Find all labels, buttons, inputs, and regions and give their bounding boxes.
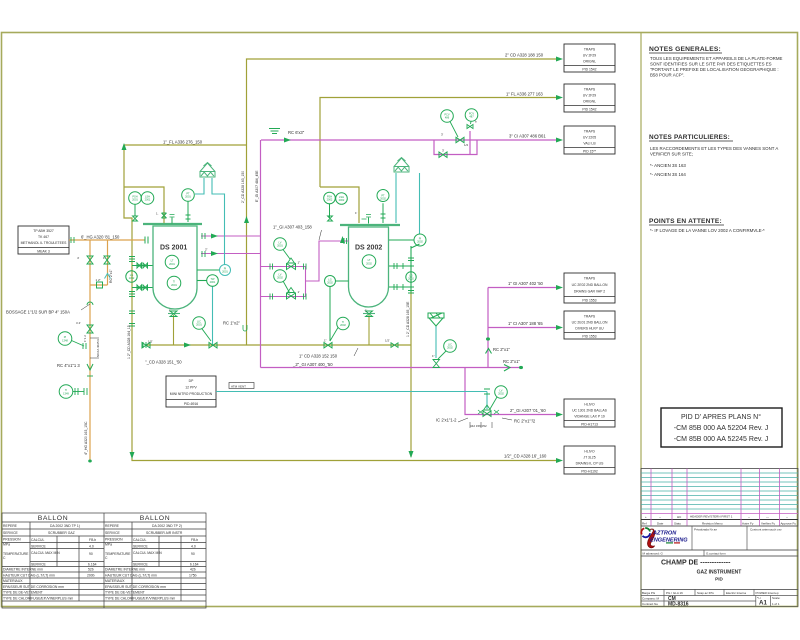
atmospheric vent header [213,286,488,409]
svg-text:1" GI A307 402 '50: 1" GI A307 402 '50 [508,281,544,286]
svg-text:42b: 42b [190,568,196,572]
svg-text:B58 POUR ACP".: B58 POUR ACP". [650,73,685,78]
svg-text:487: 487 [469,115,474,119]
svg-text:DRAINS GAR VAP 2: DRAINS GAR VAP 2 [574,290,605,294]
svg-text:TYPE DE CALORIFUGE/EP./VINERPL: TYPE DE CALORIFUGE/EP./VINERPLUS mm [3,597,73,601]
svg-text:DIAMETRE INTERNE mm: DIAMETRE INTERNE mm [105,568,145,572]
svg-text:SONT IDENTIFIES SUR LE SITE PA: SONT IDENTIFIES SUR LE SITE PAR DES ETIQ… [650,62,772,67]
svg-text:M advanced: G: M advanced: G [643,552,664,556]
off-page connector flag 1 [564,44,615,72]
up arrow on FL A336 276 [122,143,127,150]
instrument bubble LT in DS2002 [362,255,376,269]
svg-text:---: --- [766,515,769,519]
flange marks at manifold rungs [270,264,306,270]
instrument bubble PSH DS2002 a [324,192,336,218]
svg-text:2002: 2002 [327,198,333,202]
instrument bubble LV on vent drop [490,386,507,409]
instrument bubble PI right of DS2002 [414,234,426,246]
level gauge bridle circle on rail x132 [126,271,137,282]
nozzle ticks on DS2001 flange [171,218,173,224]
off-page connector flag 5 [564,311,615,339]
svg-text:DA 2002 3ND TP 2): DA 2002 3ND TP 2) [152,524,182,528]
valve on HG riser 4in [87,256,93,264]
revision table grid [641,469,798,527]
svg-text:--: -- [748,515,750,519]
svg-text:PID 1542: PID 1542 [582,68,596,72]
svg-text:RC 2"x1": RC 2"x1" [109,268,113,283]
DS2002 right nozzle lines [389,240,420,292]
svg-text:UC 2E01 2ND BALLON: UC 2E01 2ND BALLON [572,321,608,325]
BALLON data tables [2,513,206,608]
svg-text:2002: 2002 [340,323,346,327]
svg-text:042 156 052: 042 156 052 [470,424,487,428]
bridle branch to vessel upper [132,263,153,268]
svg-text:90: 90 [191,552,195,556]
control valve on vent drop [483,411,491,416]
svg-text:HEADER REV/STERN FIRST 1: HEADER REV/STERN FIRST 1 [690,515,733,519]
instrument bubble LV2002 [274,270,290,294]
svg-text:6'_HG A320 '81_150: 6'_HG A320 '81_150 [81,235,120,240]
svg-text:Date: Date [657,522,664,526]
svg-text:NOTES PARTICULIERES:: NOTES PARTICULIERES: [649,134,730,141]
pipe RC 6x3 to flag3 [261,131,556,155]
fitting at vent drop junction [484,389,490,394]
svg-text:_2"_GI A307 400_'50: _2"_GI A307 400_'50 [292,362,333,367]
valve on drain header left [142,343,150,348]
arrow on drain header [184,343,191,348]
svg-text:1"_FL A336 276_150: 1"_FL A336 276_150 [163,140,203,145]
svg-text:PID 1553: PID 1553 [582,299,596,303]
fittings on magenta bottom run [478,410,499,414]
LV manifold between vessels [261,241,349,297]
off-page connector flag 2 [564,84,615,112]
svg-text:DIVERS HLKP UU: DIVERS HLKP UU [575,327,604,331]
svg-text:PID: PID [715,577,723,582]
svg-text:DIAMETRE INTERNE mm: DIAMETRE INTERNE mm [3,568,43,572]
svg-text:UC 1301 2ND BALLAS: UC 1301 2ND BALLAS [572,409,608,413]
off-page connector flag 6 [564,399,615,427]
svg-text:DRAINS IL CP US: DRAINS IL CP US [576,462,604,466]
flow arrow into flag1 [556,57,563,62]
svg-text:PRESSION: PRESSION [105,538,123,542]
dimension ticks on HG riser [90,338,99,358]
arrow at DS2002 inlet nozzle [340,236,345,243]
svg-text:LT: LT [368,258,371,262]
fittings on HG riser mid [87,302,93,305]
svg-text:--: -- [659,515,661,519]
svg-text:METHANOL IL TROULETEES: METHANOL IL TROULETEES [21,241,68,245]
svg-text:Barga PG: Barga PG [642,591,656,595]
svg-text:JT 3L25: JT 3L25 [583,456,595,460]
notes generales paragraph [650,56,782,78]
instrument bubble LI gauge DS2002 [406,272,416,282]
svg-text:Scale:: Scale: [772,596,781,600]
svg-text:FB.b: FB.b [191,538,198,542]
pipe HG A320 from source box [69,240,145,461]
svg-text:VERIFIER SUR SITE;: VERIFIER SUR SITE; [650,152,693,157]
svg-text:Autre Fy: Autre Fy [742,522,754,526]
svg-text:1"1 2: 1"1 2 [83,335,87,342]
svg-text:PRESSION: PRESSION [3,538,21,542]
svg-text:EPAISSEUR SUT DE CORROSION mm: EPAISSEUR SUT DE CORROSION mm [105,585,166,589]
svg-text:4.0: 4.0 [191,545,196,549]
svg-text:1 2": 1 2" [96,278,101,282]
instrument bubble PI on HG riser [58,332,86,349]
svg-text:REPERE: REPERE [105,524,120,528]
svg-text:PID 1542: PID 1542 [582,108,596,112]
svg-text:b.164: b.164 [190,563,199,567]
olive header to DS2001 instruments [124,148,132,460]
instrument bubble PI gauge right of DS2001 (teal) [220,265,231,276]
svg-text:1349: 1349 [63,391,69,395]
flange pairs on DS2001 overhead nozzles [202,233,205,257]
svg-text:Company: M: Company: M [642,597,660,601]
title block bottom rows [641,589,798,607]
svg-text:2002: 2002 [277,276,283,280]
instrument bubble PT DS2001 [182,189,195,222]
PID reference box [661,408,782,447]
svg-text:CALCUL MAX MIN: CALCUL MAX MIN [31,551,60,555]
instrument bubble PI top1 DS2001 [129,192,142,216]
svg-text:DS 2002: DS 2002 [355,245,382,252]
svg-text:TEMPERATURE: TEMPERATURE [3,552,29,556]
svg-text:90: 90 [89,552,93,556]
valve on RC6x3 bypass [439,152,447,157]
svg-text:4"_HG A320 163_15C: 4"_HG A320 163_15C [84,421,88,455]
svg-text:1'': 1'' [432,354,435,358]
instrument bubble PCV b [465,109,478,124]
small info row [641,550,798,556]
flange pair on drain header left end [143,342,146,348]
instrument bubble LIC with leader to drain valve [193,317,211,341]
svg-text:Electric Interna: Electric Interna [726,591,746,595]
off-page connector flag 4 [564,273,615,303]
logo and cartouche cells row [641,526,798,550]
svg-text:TEMPERATURE: TEMPERATURE [105,552,131,556]
svg-text:2002: 2002 [408,277,414,281]
svg-text:G.contact form: G.contact form [706,552,726,556]
svg-text:"PORTANT LE PREFIXE DE LOCALIS: "PORTANT LE PREFIXE DE LOCALISATION GEOG… [650,67,779,72]
pipe GI A307 101 to flag6 [465,368,556,415]
valve DS2002 bottom outlet [366,311,373,317]
svg-text:''_CD A328 151_'50: ''_CD A328 151_'50 [145,360,182,365]
svg-text:E'_GI A307 484_45E: E'_GI A307 484_45E [255,170,259,202]
svg-text:2" CD A328 188 150: 2" CD A328 188 150 [505,53,544,58]
svg-text:Privatizada Nr ae: Privatizada Nr ae [694,528,717,532]
svg-text:ATM VENT: ATM VENT [231,384,246,388]
svg-text:BALLON: BALLON [38,515,68,522]
svg-text:486: 486 [445,116,450,120]
svg-text:UV 2205: UV 2205 [583,136,596,140]
svg-text:2001: 2001 [210,280,216,284]
points en attente heading [649,218,724,225]
svg-text:1 2"_CD A328 164_15: 1 2"_CD A328 164_15 [127,325,131,359]
PSV 2002 relief lines [396,173,420,234]
svg-text:1/2"_CD A328 16'_160: 1/2"_CD A328 16'_160 [504,454,547,459]
svg-text:1348: 1348 [62,338,68,342]
svg-text:UV 2F29: UV 2F29 [583,54,596,58]
svg-text:TYPE DE CALORIFUGE/EP./VINERPL: TYPE DE CALORIFUGE/EP./VINERPLUS mm [105,597,175,601]
svg-text:TP ABH 3527: TP ABH 3527 [33,229,54,233]
svg-text:VIDANGE LAX P 19: VIDANGE LAX P 19 [574,415,605,419]
svg-text:POWER Intercep: POWER Intercep [756,591,779,595]
spec breaks on olive rail x132 [129,257,135,327]
svg-text:-CM 85B 000 AA 52245 Rev. J: -CM 85B 000 AA 52245 Rev. J [674,436,768,443]
down arrow at CD A328 161 corner [130,452,135,459]
flange pairs on DS2002 right stubs [394,263,403,269]
svg-text:TYPE DE DE-VETEMENT: TYPE DE DE-VETEMENT [3,591,43,595]
valve DS2001 bottom outlet [170,311,177,317]
svg-text:SERVICE: SERVICE [3,531,19,535]
svg-text:Verifies Fy: Verifies Fy [761,522,776,526]
svg-text:PID 15**: PID 15** [583,150,597,154]
instrument bubble LG left of DS2002 [325,276,349,342]
flow arrow into flag3 [556,138,563,143]
svg-text:2002: 2002 [447,346,453,350]
end dot on HG riser [88,460,92,463]
svg-text:CALCUL: CALCUL [133,538,146,542]
DS2001 bottom outlet [173,315,175,345]
svg-text:FB.b: FB.b [89,538,96,542]
svg-text:Revision Memo: Revision Memo [702,522,723,526]
svg-text:12 PPV: 12 PPV [185,386,197,390]
svg-text:PID-H1192: PID-H1192 [581,470,598,474]
svg-text:52b: 52b [88,568,94,572]
svg-text:1": 1" [324,339,327,343]
svg-text:SERVICE: SERVICE [133,563,149,567]
chevron on HG branch [105,274,111,279]
svg-text:1" FL A336 277 163: 1" FL A336 277 163 [506,92,543,97]
svg-text:TI: TI [65,388,68,392]
svg-text:2001: 2001 [185,195,191,199]
instrument bubble LSH DS2002 b [336,193,348,205]
instrument bubble TI on HG riser low [59,385,87,399]
svg-text:DS 2001: DS 2001 [160,245,187,252]
svg-text:+: + [645,515,647,519]
svg-text:TI: TI [173,279,176,283]
svg-text:b.164: b.164 [88,563,97,567]
instrument bubble LV2001 [274,238,290,259]
svg-text:2'_CD A328 163_150: 2'_CD A328 163_150 [241,171,245,203]
pipe GI A307 vertical rail [260,140,262,368]
svg-text:RC 2"x1": RC 2"x1" [503,359,520,364]
dimension marks under funnel valve [458,418,512,422]
olive header to DS2002 instruments [320,187,359,223]
svg-text:GAZ INSTRUMENT: GAZ INSTRUMENT [697,570,742,576]
svg-text:SCRUBBER AIR INSTR: SCRUBBER AIR INSTR [146,531,183,535]
reducer on HG riser [87,364,93,370]
label ATM VENT boxed [229,383,254,389]
fitting on instrument stem x164 [162,213,167,218]
svg-text:2001: 2001 [169,262,175,266]
nozzle ticks on DS2002 flange [368,218,370,224]
pipe CD A328 163 vertical below [246,145,248,345]
svg-text:4.0: 4.0 [89,545,94,549]
svg-text:VALI LB: VALI LB [583,142,596,146]
instrument bubble LIC with leader to funnel valve [438,340,456,359]
svg-text:1342: 1342 [129,276,135,280]
svg-text:200b: 200b [87,574,95,578]
instrument bubble TW right of DS2001 (green) [207,275,219,287]
svg-text:LES RACCORDEMENTS ET LES TYPES: LES RACCORDEMENTS ET LES TYPES DES VANNE… [650,146,778,151]
svg-text:1/2': 1/2' [148,340,153,344]
svg-text:HAUTEUR CUT DAG (L.T/LT) mm: HAUTEUR CUT DAG (L.T/LT) mm [3,574,55,578]
DP note box [166,376,216,407]
svg-text:MPa: MPa [105,543,112,547]
vessel DS 2002 [340,225,400,314]
svg-text:RC 4"x1"1 3: RC 4"x1"1 3 [57,363,80,368]
vent to atmosphere symbol [269,129,280,134]
svg-text:-CM 85B 000 AA 52204 Rev. J: -CM 85B 000 AA 52204 Rev. J [674,425,768,432]
svg-text:TYPE DE DE-VETEMENT: TYPE DE DE-VETEMENT [105,591,145,595]
svg-text:RC 6'x3": RC 6'x3" [288,130,305,135]
tee fitting on HG riser [97,282,103,288]
pipe FL A336 277 to flag2 [320,98,556,188]
fitting under DS2002 stem [328,216,333,221]
PSV 2001 [200,163,215,178]
PSV 2001 relief lines [195,178,225,265]
svg-text:Contract Ne: Contract Ne [642,602,658,606]
valve on drain header mid [209,343,217,348]
pipe CD A328 188 to flag1 [247,59,557,145]
svg-text:UV 2F29: UV 2F29 [583,94,596,98]
svg-text:TOUS LES EQUIPEMENTS ET APPARE: TOUS LES EQUIPEMENTS ET APPAREILS DE LA … [650,56,782,61]
svg-text:2001: 2001 [171,283,177,287]
instrument bubble LT in DS2001 [165,255,179,269]
svg-text:BOSSAGE 1"1/2 SUR BP 4" 150A: BOSSAGE 1"1/2 SUR BP 4" 150A [6,310,70,315]
svg-text:AZTRON: AZTRON [652,531,677,537]
valve on drain header right [391,343,398,348]
svg-text:HLIVO: HLIVO [584,403,595,407]
svg-text:MINI NITRO PRODUCTION: MINI NITRO PRODUCTION [170,392,213,396]
svg-text:RC 2"x1": RC 2"x1" [493,347,510,352]
drain funnel [428,313,444,326]
svg-text:1.: 1. [156,212,159,216]
pipe CD A328 151 drain header [146,344,411,346]
flange at DS2002 inlet [344,238,347,244]
svg-text:TRAPS: TRAPS [584,48,596,52]
DS2002 bottom outlet [368,315,370,345]
svg-text:HAUTEUR CUT DAG (L.T/LT) mm: HAUTEUR CUT DAG (L.T/LT) mm [105,574,157,578]
DS2001 overhead nozzle lines [201,236,261,254]
title block main [641,556,798,589]
fitting on PT stem [186,215,191,219]
svg-text:*- IF LOVAGE DE LA VANNE LOV 2: *- IF LOVAGE DE LA VANNE LOV 2002 A CONF… [650,228,765,233]
instrument bubble PT DS2002 [377,190,389,224]
svg-text:TK 467: TK 467 [38,235,49,239]
svg-text:1" CI A307 188 '65: 1" CI A307 188 '65 [508,321,543,326]
riser to flags 4 and 5 [488,288,556,368]
svg-text:SCRUBBER GAZ: SCRUBBER GAZ [48,531,75,535]
svg-text:2002: 2002 [366,261,372,265]
pipe FL A336 276 horizontal [124,145,247,148]
up arrow on CD A328 163 [244,216,249,223]
svg-text:POINTS EN ATTENTE:: POINTS EN ATTENTE: [649,218,722,225]
svg-text:TRAPS: TRAPS [584,130,596,134]
svg-text:ORIGNL: ORIGNL [583,100,596,104]
svg-text:UC 2E02 2ND BALLON: UC 2E02 2ND BALLON [572,283,608,287]
svg-text:1" CD A328 152 150: 1" CD A328 152 150 [299,354,338,359]
svg-text:PI: PI [64,335,67,339]
pipe CD A328 161 bottom header to flag7 [132,460,556,461]
valve on funnel drain [433,360,440,368]
flow arrow into flag5 [556,325,563,330]
bridle branch to vessel lower [132,285,153,290]
instrument bubble TI near DS2002 bottom [330,317,349,341]
fitting under bubble stem DS2001 [133,216,138,221]
svg-text:A1: A1 [759,600,767,607]
svg-text:2001: 2001 [277,244,283,248]
flow arrow into flag7 [556,458,563,463]
svg-text:SERVICE: SERVICE [133,545,149,549]
svg-text:RC 2"x1"'/2: RC 2"x1"'/2 [514,419,536,424]
svg-text:1/2: 1/2 [464,143,469,147]
svg-text:HLIVO: HLIVO [584,450,595,454]
arrow on overhead line 236 [211,234,218,239]
pipe GI A307 400 bottom run [261,367,489,369]
instrument bubble PCV a [441,110,458,137]
small size labels [76,120,477,359]
pipe CD A328 165 vertical [410,292,412,457]
svg-text:CALCUL MAX MIN: CALCUL MAX MIN [133,551,162,555]
svg-text:PG / GLA 16: PG / GLA 16 [666,591,683,595]
spec breaks on green rail x411 [408,258,414,293]
svg-text:2002: 2002 [417,240,423,244]
flange pair at DS2001 feed nozzle [145,237,148,244]
PSV 2002 [394,158,409,173]
svg-text:TRAPS: TRAPS [584,277,596,281]
svg-text:*- ANCIEN 3S 163: *- ANCIEN 3S 163 [650,163,686,168]
svg-text:REPERE: REPERE [3,524,18,528]
svg-text:EPAISSEUR SUT DE CORROSION mm: EPAISSEUR SUT DE CORROSION mm [3,585,64,589]
source equipment box TP ABH [18,226,69,254]
svg-text:MPa: MPa [3,543,10,547]
svg-text:2": 2" [205,248,208,252]
notes particulieres heading [649,134,733,141]
svg-text:PID 1553: PID 1553 [582,335,596,339]
svg-text:Costrunt artemouch zzz: Costrunt artemouch zzz [750,528,782,532]
svg-text:DA 2002 3ND TP 1): DA 2002 3ND TP 1) [50,524,80,528]
svg-text:TRAPS: TRAPS [584,88,596,92]
instrument bubble TI in DS2001 [167,276,181,290]
svg-text:1 2'_CD A328 165_15E: 1 2'_CD A328 165_15E [406,301,410,337]
svg-text:SERVICE: SERVICE [31,563,47,567]
svg-text:Approve Fy: Approve Fy [781,522,797,526]
off-page connector flag 7 [564,446,615,474]
svg-text:ORIGNL: ORIGNL [583,60,596,64]
arrow on overhead line 253 [211,251,218,256]
valve on drain header at DS2002 [324,343,332,348]
svg-text:Scap ac IPG: Scap ac IPG [697,591,715,595]
svg-text:2001: 2001 [222,270,228,274]
svg-text:2001: 2001 [132,198,138,202]
svg-text:Statu: Statu [674,522,681,526]
vessel DS 2001 [143,224,202,314]
svg-text:2001: 2001 [196,323,202,327]
svg-text:SERVICE: SERVICE [105,531,121,535]
spec break on HG line [71,237,74,243]
svg-text:NOTES GENERALES:: NOTES GENERALES: [649,46,721,53]
svg-text:SERVICE: SERVICE [31,545,47,549]
valve on HG riser 3/4 [87,325,93,333]
svg-text:CALCUL: CALCUL [31,538,44,542]
svg-text:IC 2'x1"1-2: IC 2'x1"1-2 [436,418,457,423]
svg-text:--: -- [786,515,788,519]
svg-text:3 4': 3 4' [76,321,81,325]
svg-text:175b: 175b [189,574,197,578]
notes generales heading [649,46,722,53]
svg-text:2002: 2002 [339,198,345,202]
